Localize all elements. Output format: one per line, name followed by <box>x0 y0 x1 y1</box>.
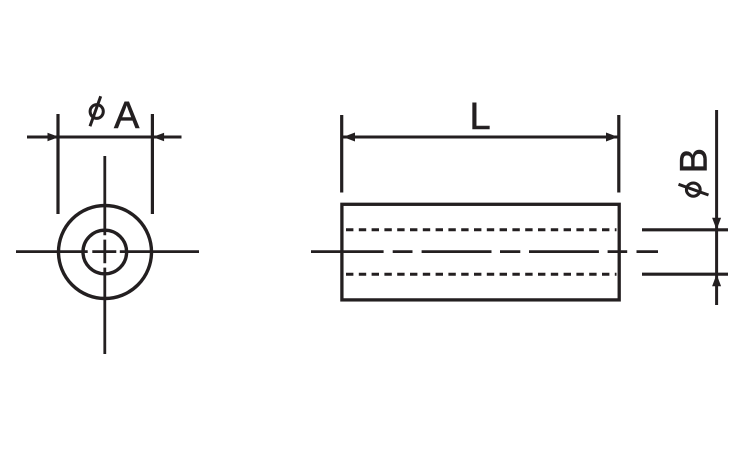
extension line left (dim A) <box>56 114 59 214</box>
svg-text:A: A <box>114 95 140 137</box>
centerline (side view) <box>311 250 658 253</box>
outer circle (front view) <box>59 206 152 299</box>
inner circle (hole, front view) <box>83 230 127 274</box>
hidden line bottom (side view) <box>346 273 617 276</box>
vertical centerline (front view) <box>103 156 106 354</box>
arrowhead A right <box>153 133 165 142</box>
dimension line B <box>715 110 718 305</box>
rectangle body (side view) <box>342 204 619 300</box>
extension line left (dim L) <box>340 115 343 193</box>
dimension line L <box>343 136 618 139</box>
svg-text:L: L <box>470 96 491 138</box>
arrowhead L left <box>343 133 355 142</box>
extension line right (dim L) <box>617 115 620 193</box>
phi symbol (dim B, rotated) <box>679 183 709 196</box>
extension line bottom (dim B) <box>642 273 728 276</box>
extension line right (dim A) <box>151 114 154 214</box>
svg-text:B: B <box>673 148 715 173</box>
arrowhead B bottom <box>712 274 721 286</box>
hidden line top (side view) <box>346 228 617 231</box>
arrowhead B top <box>712 218 721 230</box>
arrowhead L right <box>606 133 618 142</box>
extension line top (dim B) <box>642 228 728 231</box>
dimension line A <box>27 136 182 139</box>
horizontal centerline (front view) <box>16 250 199 253</box>
phi symbol (dim A) <box>90 96 103 126</box>
arrowhead A left <box>48 133 60 142</box>
